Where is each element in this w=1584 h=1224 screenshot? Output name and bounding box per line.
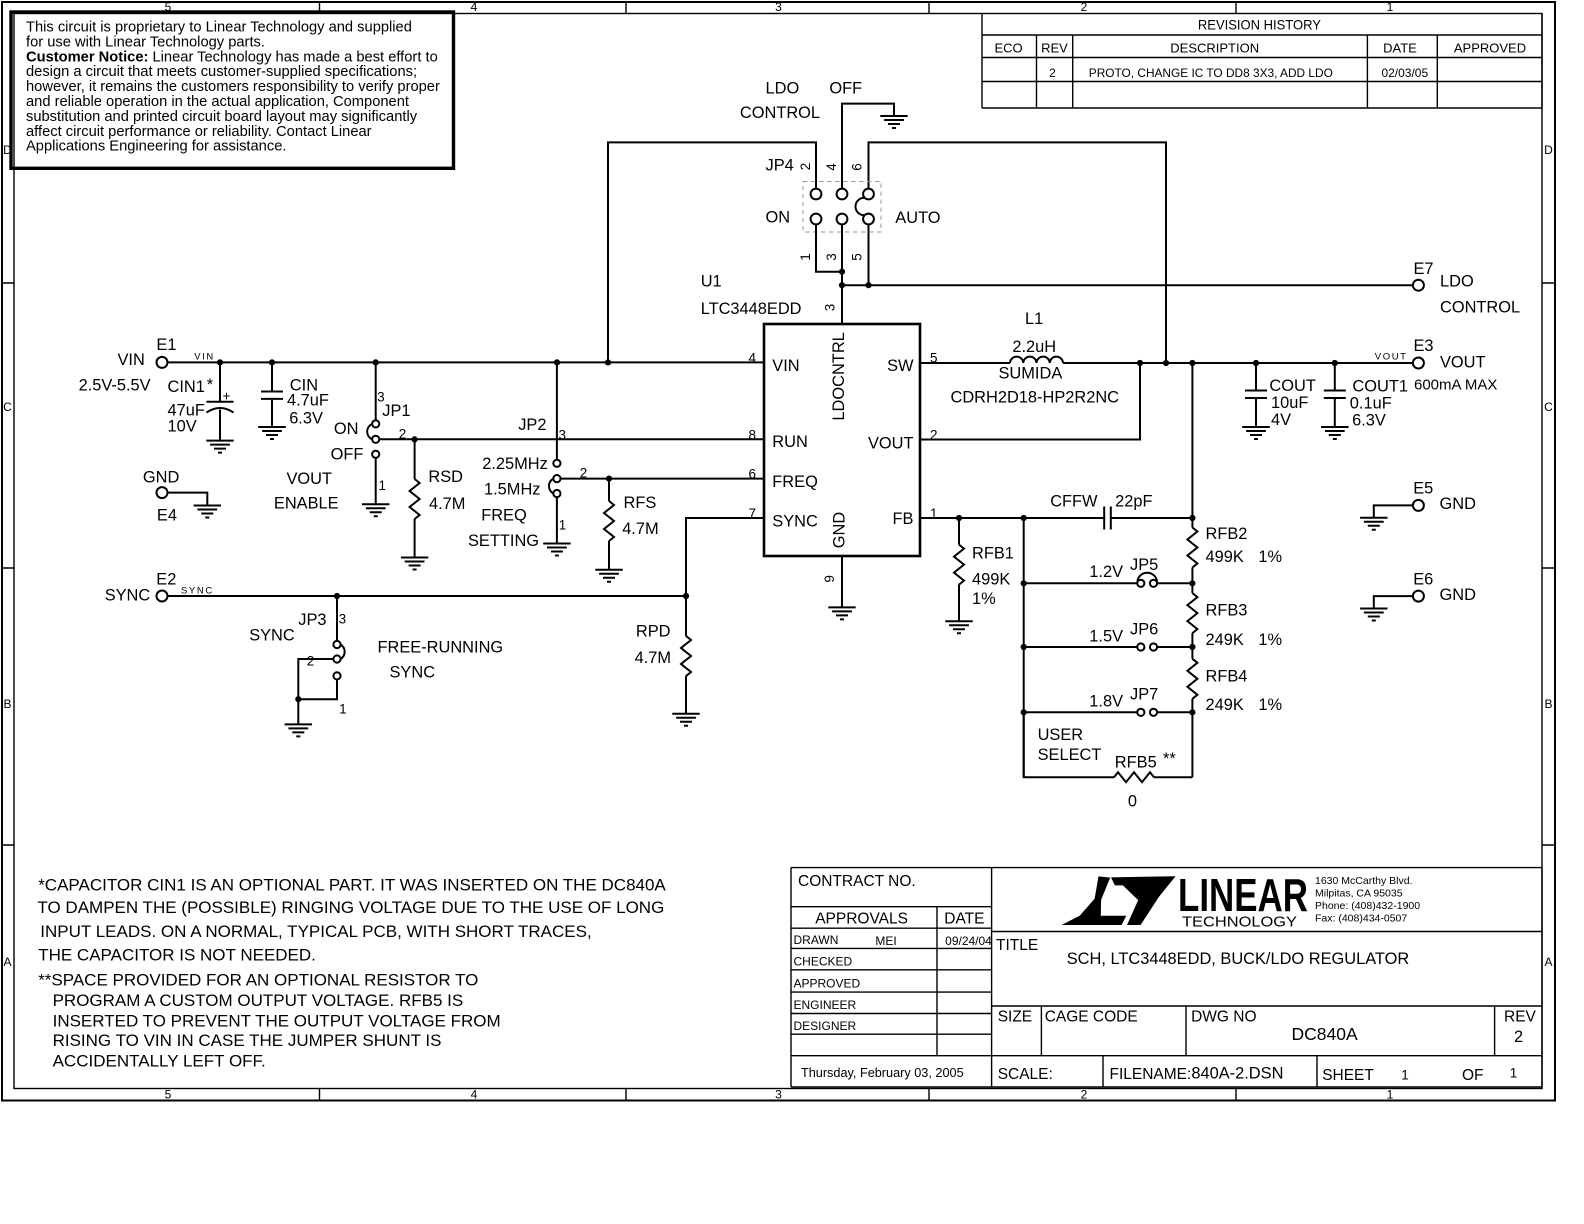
svg-text:VIN: VIN: [194, 351, 215, 362]
svg-text:5: 5: [850, 253, 865, 261]
capacitor COUT1 0.1uF 6.3V: [1324, 363, 1408, 430]
svg-text:09/24/04: 09/24/04: [945, 934, 992, 948]
svg-text:C: C: [1544, 400, 1553, 414]
svg-text:1%: 1%: [1258, 696, 1282, 714]
svg-text:APPROVALS: APPROVALS: [815, 911, 908, 928]
svg-text:8: 8: [748, 428, 756, 443]
resistor RFS 4.7M: [604, 479, 659, 570]
wire RUN net JP1 pin 2 to U1 pin 8: [379, 436, 764, 442]
terminal E1 VIN: [79, 336, 177, 394]
svg-text:CDRH2D18-HP2R2NC: CDRH2D18-HP2R2NC: [951, 389, 1120, 407]
ground (E6): [1360, 609, 1387, 621]
svg-text:VIN: VIN: [772, 357, 799, 375]
ground (RFB1): [945, 621, 972, 633]
svg-text:INPUT LEADS. ON A NORMAL, TYPI: INPUT LEADS. ON A NORMAL, TYPICAL PCB, W…: [40, 922, 591, 941]
svg-text:CFFW: CFFW: [1050, 492, 1098, 510]
jumper JP7 1.8V: [1024, 686, 1196, 716]
jumper JP3 SYNC / FREE-RUNNING: [249, 596, 503, 724]
svg-text:DESIGNER: DESIGNER: [794, 1019, 857, 1033]
svg-text:6.3V: 6.3V: [289, 410, 323, 428]
svg-text:DESCRIPTION: DESCRIPTION: [1170, 41, 1259, 56]
svg-text:3: 3: [559, 427, 567, 442]
svg-text:6.3V: 6.3V: [1352, 412, 1386, 430]
capacitor CFFW 22pF: [1050, 492, 1152, 529]
svg-text:7: 7: [748, 506, 756, 521]
ground (JP2 pin 1): [543, 544, 570, 556]
svg-text:VOUT: VOUT: [287, 470, 333, 488]
ground (JP1 pin 1): [362, 504, 389, 516]
svg-text:3: 3: [824, 253, 839, 261]
svg-text:3: 3: [339, 612, 347, 627]
svg-text:DC840A: DC840A: [1292, 1024, 1358, 1044]
svg-text:Applications Engineering for a: Applications Engineering for assistance.: [26, 139, 286, 155]
svg-text:OFF: OFF: [829, 80, 862, 98]
svg-text:1630 McCarthy Blvd.: 1630 McCarthy Blvd.: [1315, 875, 1412, 887]
terminal E7 LDO CONTROL: [1413, 260, 1520, 317]
svg-text:LDOCNTRL: LDOCNTRL: [830, 332, 848, 420]
svg-text:SYNC: SYNC: [772, 512, 818, 530]
svg-text:**SPACE PROVIDED FOR AN OPTION: **SPACE PROVIDED FOR AN OPTIONAL RESISTO…: [38, 971, 478, 990]
svg-text:PROGRAM A CUSTOM OUTPUT VOLTAG: PROGRAM A CUSTOM OUTPUT VOLTAGE. RFB5 IS: [53, 991, 464, 1010]
svg-text:VOUT: VOUT: [1375, 351, 1408, 362]
svg-text:2: 2: [798, 163, 813, 171]
Linear Technology logo: [1062, 869, 1421, 931]
svg-text:3: 3: [823, 304, 838, 312]
svg-text:4.7M: 4.7M: [635, 649, 671, 667]
svg-text:JP7: JP7: [1130, 686, 1158, 704]
svg-text:2: 2: [307, 654, 315, 669]
svg-text:22pF: 22pF: [1115, 492, 1152, 510]
svg-text:RSD: RSD: [428, 468, 463, 486]
svg-text:JP2: JP2: [518, 416, 546, 434]
svg-text:USER: USER: [1038, 726, 1084, 744]
svg-text:ACCIDENTALLY LEFT OFF.: ACCIDENTALLY LEFT OFF.: [53, 1051, 266, 1070]
svg-text:TECHNOLOGY: TECHNOLOGY: [1182, 914, 1297, 931]
wire VOUT rail to RFB2 top: [1191, 363, 1193, 528]
terminal E2 SYNC: [105, 571, 177, 605]
svg-text:6: 6: [850, 163, 865, 171]
svg-text:COUT: COUT: [1269, 377, 1315, 395]
svg-text:1.5MHz: 1.5MHz: [484, 481, 540, 499]
ground (RFS): [595, 570, 622, 582]
svg-text:JP3: JP3: [298, 611, 326, 629]
svg-text:SW: SW: [887, 357, 914, 375]
wire LDOCNTRL to VIN (JP4 pin 2 branch): [608, 142, 816, 362]
svg-text:FREQ: FREQ: [481, 507, 527, 525]
svg-text:2: 2: [1081, 1088, 1088, 1102]
svg-text:GND: GND: [1440, 586, 1477, 604]
svg-text:D: D: [1544, 143, 1553, 157]
svg-text:TO DAMPEN THE (POSSIBLE) RINGI: TO DAMPEN THE (POSSIBLE) RINGING VOLTAGE…: [37, 898, 664, 917]
svg-text:SIZE: SIZE: [998, 1009, 1032, 1026]
svg-text:TITLE: TITLE: [996, 937, 1038, 954]
svg-text:design a circuit that meets cu: design a circuit that meets customer-sup…: [26, 64, 417, 80]
svg-text:B: B: [3, 697, 11, 711]
svg-text:SETTING: SETTING: [468, 532, 539, 550]
svg-text:249K: 249K: [1206, 696, 1244, 714]
svg-text:RISING TO VIN IN CASE THE JUMP: RISING TO VIN IN CASE THE JUMPER SHUNT I…: [53, 1031, 442, 1050]
ground (CIN): [258, 427, 285, 439]
svg-text:GND: GND: [831, 512, 849, 549]
svg-text:E7: E7: [1414, 260, 1434, 278]
svg-text:JP4: JP4: [766, 156, 794, 174]
svg-text:RPD: RPD: [636, 623, 671, 641]
resistor RFB2 499K 1%: [1187, 525, 1282, 593]
svg-text:L1: L1: [1025, 310, 1043, 328]
svg-text:4: 4: [471, 0, 478, 14]
ground (RSD): [401, 558, 428, 570]
wire U1 pin 9 GND: [841, 556, 843, 607]
svg-text:4: 4: [748, 350, 756, 365]
svg-text:10uF: 10uF: [1271, 394, 1308, 412]
svg-text:APPROVED: APPROVED: [1454, 41, 1526, 56]
svg-text:1.5V: 1.5V: [1089, 628, 1123, 646]
jumper JP6 1.5V: [1024, 621, 1196, 651]
svg-text:LDO: LDO: [766, 80, 800, 98]
svg-text:Customer Notice: Linear Techno: Customer Notice: Linear Technology has m…: [26, 49, 438, 65]
svg-text:4.7M: 4.7M: [429, 495, 465, 513]
wire VIN rail E1 to U1 pin 4: [168, 359, 764, 365]
resistor RFB5 0 ohm (user select): [1024, 712, 1193, 810]
svg-text:DWG NO: DWG NO: [1191, 1009, 1256, 1026]
wire user-select bus: [1021, 518, 1027, 777]
svg-text:E2: E2: [156, 571, 176, 589]
net label VIN: [194, 351, 215, 362]
ground (JP4 OFF): [880, 116, 907, 128]
svg-text:2.25MHz: 2.25MHz: [482, 455, 548, 473]
svg-text:RFB4: RFB4: [1206, 667, 1248, 685]
svg-text:FREQ: FREQ: [772, 473, 818, 491]
svg-text:SYNC: SYNC: [105, 586, 151, 604]
svg-text:VOUT: VOUT: [868, 435, 914, 453]
svg-text:FREE-RUNNING: FREE-RUNNING: [378, 638, 504, 656]
svg-text:E4: E4: [157, 507, 177, 525]
wire FB U1 pin 1 to divider: [920, 515, 1196, 521]
svg-text:1%: 1%: [1258, 548, 1282, 566]
revision history table: [982, 14, 1542, 109]
svg-text:1%: 1%: [972, 590, 996, 608]
svg-text:SCALE:: SCALE:: [998, 1066, 1053, 1083]
svg-text:RFS: RFS: [624, 494, 657, 512]
svg-text:JP6: JP6: [1130, 621, 1158, 639]
capacitor CIN1 47uF 10V (polarized): [168, 362, 234, 440]
op-amp U1 LTC3448EDD (IC body): [701, 273, 920, 557]
svg-text:A: A: [3, 955, 11, 969]
inductor L1 2.2uH SUMIDA CDRH2D18-HP2R2NC: [951, 310, 1120, 406]
jumper JP4 LDO CONTROL: [740, 80, 941, 261]
svg-text:RFB2: RFB2: [1206, 525, 1248, 543]
svg-text:1.2V: 1.2V: [1089, 563, 1123, 581]
svg-text:CHECKED: CHECKED: [794, 955, 853, 969]
svg-text:OFF: OFF: [331, 446, 364, 464]
terminal E6 GND: [1374, 570, 1476, 608]
svg-text:SCH, LTC3448EDD, BUCK/LDO REGU: SCH, LTC3448EDD, BUCK/LDO REGULATOR: [1067, 950, 1410, 968]
svg-text:INSERTED TO PREVENT THE OUTPUT: INSERTED TO PREVENT THE OUTPUT VOLTAGE F…: [53, 1012, 501, 1031]
svg-text:E5: E5: [1413, 480, 1433, 498]
wire JP4 pin 4 to ground (OFF): [842, 104, 894, 189]
svg-text:JP1: JP1: [382, 402, 410, 420]
svg-text:9: 9: [822, 575, 837, 583]
ground (U1 pin 9): [828, 607, 855, 619]
svg-text:*CAPACITOR CIN1 IS AN OPTIONAL: *CAPACITOR CIN1 IS AN OPTIONAL PART. IT …: [38, 876, 666, 895]
svg-text:RFB3: RFB3: [1206, 602, 1248, 620]
svg-text:SELECT: SELECT: [1038, 746, 1102, 764]
svg-text:4V: 4V: [1271, 411, 1291, 429]
svg-text:MEI: MEI: [875, 934, 896, 948]
wire JP4 pin 1 to pin 3 net: [816, 224, 842, 271]
notes text: [37, 876, 666, 1071]
svg-text:ENGINEER: ENGINEER: [794, 998, 857, 1012]
svg-text:This circuit is proprietary to: This circuit is proprietary to Linear Te…: [26, 20, 412, 36]
wire SYNC rail: [168, 593, 689, 599]
svg-text:GND: GND: [1440, 495, 1477, 513]
svg-text:ON: ON: [766, 209, 791, 227]
svg-text:0: 0: [1128, 793, 1137, 811]
svg-text:3: 3: [775, 0, 782, 14]
svg-text:**: **: [1163, 750, 1176, 768]
svg-text:E3: E3: [1414, 337, 1434, 355]
svg-text:1%: 1%: [1258, 631, 1282, 649]
capacitor CIN 4.7uF 6.3V: [261, 362, 329, 427]
svg-text:249K: 249K: [1206, 631, 1244, 649]
svg-text:600mA MAX: 600mA MAX: [1414, 377, 1497, 394]
svg-text:CAGE CODE: CAGE CODE: [1045, 1009, 1138, 1026]
svg-text:2.5V-5.5V: 2.5V-5.5V: [79, 377, 151, 395]
svg-text:RUN: RUN: [772, 433, 808, 451]
resistor RFB3 249K 1%: [1187, 593, 1282, 659]
svg-text:Fax: (408)434-0507: Fax: (408)434-0507: [1315, 913, 1407, 925]
svg-text:VIN: VIN: [118, 351, 145, 369]
svg-text:840A-2.DSN: 840A-2.DSN: [1191, 1065, 1283, 1083]
svg-text:U1: U1: [701, 273, 722, 291]
svg-text:COUT1: COUT1: [1352, 377, 1408, 395]
svg-text:CONTROL: CONTROL: [740, 104, 820, 122]
svg-text:VOUT: VOUT: [1440, 354, 1486, 372]
svg-text:REVISION HISTORY: REVISION HISTORY: [1198, 17, 1322, 33]
svg-text:DRAWN: DRAWN: [794, 933, 839, 947]
svg-text:SHEET: SHEET: [1322, 1067, 1374, 1084]
svg-text:2: 2: [1081, 0, 1088, 14]
ground (E4): [194, 506, 221, 518]
svg-text:4.7M: 4.7M: [622, 520, 658, 538]
wire U1 pin 2 VOUT to rail: [920, 363, 1140, 440]
svg-text:ON: ON: [334, 420, 359, 438]
svg-text:RFB1: RFB1: [972, 544, 1014, 562]
svg-text:B: B: [1544, 697, 1552, 711]
capacitor COUT 10uF 4V: [1245, 363, 1316, 429]
svg-text:FILENAME:: FILENAME:: [1110, 1066, 1192, 1083]
svg-text:DATE: DATE: [944, 911, 984, 928]
ground (CIN1): [206, 441, 233, 453]
svg-text:4: 4: [471, 1088, 478, 1102]
svg-text:1: 1: [1401, 1068, 1409, 1083]
svg-text:CONTRACT NO.: CONTRACT NO.: [798, 873, 916, 890]
svg-text:+: +: [223, 389, 231, 404]
wire FREQ net JP2 pin 2 to U1 pin 6: [561, 476, 765, 482]
svg-text:1.8V: 1.8V: [1089, 693, 1123, 711]
ground (COUT): [1242, 427, 1269, 439]
svg-text:1: 1: [1387, 0, 1394, 14]
svg-text:SYNC: SYNC: [390, 664, 436, 682]
svg-text:2: 2: [1049, 66, 1056, 80]
svg-text:substitution and printed circu: substitution and printed circuit board l…: [26, 109, 418, 125]
terminal E5 GND: [1374, 480, 1476, 518]
svg-text:and reliable operation in the: and reliable operation in the actual app…: [26, 94, 409, 110]
svg-text:499K: 499K: [1206, 548, 1244, 566]
resistor RFB1 499K 1%: [954, 518, 1014, 621]
svg-text:LDO: LDO: [1440, 273, 1474, 291]
svg-text:4: 4: [824, 163, 839, 171]
svg-text:THE CAPACITOR IS NOT NEEDED.: THE CAPACITOR IS NOT NEEDED.: [38, 946, 316, 965]
svg-text:499K: 499K: [972, 571, 1010, 589]
svg-text:1: 1: [339, 702, 347, 717]
ground (JP3): [285, 724, 312, 736]
svg-text:5: 5: [165, 1088, 172, 1102]
ground (RPD): [672, 714, 699, 726]
svg-text:A: A: [1544, 955, 1552, 969]
wire VOUT rail L1 to E3: [1063, 360, 1412, 366]
svg-text:LTC3448EDD: LTC3448EDD: [701, 300, 802, 318]
resistor RPD 4.7M: [635, 596, 691, 714]
svg-text:Phone: (408)432-1900: Phone: (408)432-1900: [1315, 900, 1420, 912]
terminal E4 GND: [143, 469, 207, 525]
svg-text:REV: REV: [1504, 1009, 1537, 1026]
svg-text:SYNC: SYNC: [249, 626, 295, 644]
svg-text:0.1uF: 0.1uF: [1350, 394, 1392, 412]
svg-text:1: 1: [379, 478, 387, 493]
wire SW U1 pin 5 to L1: [920, 362, 1010, 364]
svg-text:2.2uH: 2.2uH: [1012, 338, 1056, 356]
ground (E5): [1360, 518, 1387, 530]
svg-text:C: C: [3, 400, 12, 414]
svg-text:for use with Linear Technology: for use with Linear Technology parts.: [26, 34, 265, 50]
wire SYNC to U1 pin 7: [686, 518, 764, 596]
svg-text:JP5: JP5: [1130, 556, 1158, 574]
svg-text:E1: E1: [156, 336, 176, 354]
net label SYNC: [181, 585, 214, 596]
svg-text:REV: REV: [1041, 41, 1068, 56]
svg-text:3: 3: [775, 1088, 782, 1102]
svg-text:affect circuit performance or: affect circuit performance or reliabilit…: [26, 124, 372, 140]
terminal E3 VOUT 600mA MAX: [1413, 337, 1497, 394]
svg-text:*: *: [207, 376, 214, 394]
svg-text:Thursday, February 03, 2005: Thursday, February 03, 2005: [801, 1066, 964, 1080]
svg-text:1: 1: [559, 518, 567, 533]
wire LDOCNTRL net to U1 pin 3: [839, 224, 872, 324]
svg-text:SUMIDA: SUMIDA: [999, 365, 1063, 383]
ground (COUT1): [1321, 427, 1348, 439]
svg-text:PROTO, CHANGE IC TO DD8 3X3, A: PROTO, CHANGE IC TO DD8 3X3, ADD LDO: [1089, 66, 1333, 80]
svg-text:AUTO: AUTO: [895, 209, 940, 227]
svg-text:DATE: DATE: [1383, 41, 1417, 56]
svg-text:Milpitas, CA 95035: Milpitas, CA 95035: [1315, 888, 1403, 900]
svg-text:OF: OF: [1462, 1067, 1484, 1084]
jumper JP5 1.2V: [1024, 556, 1196, 587]
net label VOUT: [1375, 351, 1408, 362]
svg-text:4.7uF: 4.7uF: [287, 392, 329, 410]
svg-text:1: 1: [1387, 1088, 1394, 1102]
svg-text:SYNC: SYNC: [181, 585, 214, 596]
svg-text:however, it remains the custom: however, it remains the customers respon…: [26, 79, 440, 95]
wire LDO CONTROL to E7: [842, 284, 1412, 286]
svg-text:1: 1: [798, 253, 813, 261]
svg-text:02/03/05: 02/03/05: [1381, 66, 1428, 80]
svg-text:10V: 10V: [168, 418, 197, 436]
svg-text:GND: GND: [143, 469, 180, 487]
svg-text:1: 1: [1510, 1066, 1518, 1081]
svg-text:RFB5: RFB5: [1115, 753, 1157, 771]
svg-text:6: 6: [748, 467, 756, 482]
svg-text:E6: E6: [1413, 570, 1433, 588]
pin numbers U1: [748, 304, 937, 583]
wire JP4 pin 6 to VOUT rail: [869, 142, 1167, 363]
svg-text:ENABLE: ENABLE: [274, 494, 339, 512]
svg-text:CONTROL: CONTROL: [1440, 299, 1520, 317]
jumper JP1 VOUT ENABLE: [274, 362, 411, 512]
svg-text:CIN1: CIN1: [168, 378, 205, 396]
resistor RFB4 249K 1%: [1187, 659, 1282, 777]
resistor RSD 4.7M: [410, 439, 466, 557]
svg-text:FB: FB: [893, 510, 914, 528]
title block: [791, 868, 1542, 1087]
svg-text:APPROVED: APPROVED: [794, 977, 861, 991]
svg-text:2: 2: [1514, 1028, 1523, 1046]
svg-text:ECO: ECO: [995, 41, 1023, 56]
customer notice box: [11, 12, 454, 168]
jumper JP2 FREQ SETTING: [468, 362, 587, 550]
